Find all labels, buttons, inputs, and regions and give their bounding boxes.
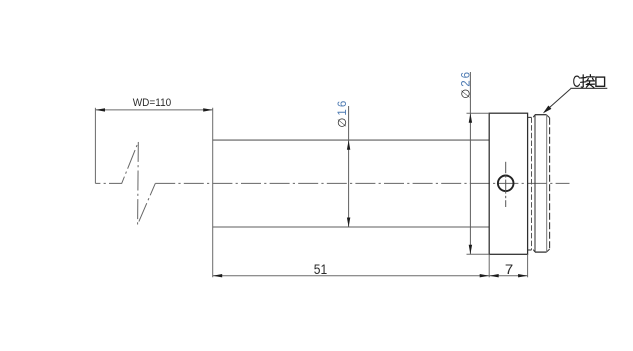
ring A bottom edge <box>528 249 532 251</box>
arrow WD left <box>96 108 106 111</box>
label phi16 (rotated) <box>337 99 349 128</box>
C-mount cylinder top edge <box>535 114 547 116</box>
arrow 7 right <box>518 274 528 277</box>
ring A top edge <box>528 116 532 118</box>
svg-text:∅16: ∅16 <box>337 99 349 128</box>
tube top edge <box>213 139 490 141</box>
chamfer bottom-right <box>546 249 549 252</box>
label KOU (hand-drawn CJK) <box>596 77 605 86</box>
wire block bottom extension for phi26 <box>467 253 490 255</box>
leader line C-mount <box>544 89 571 113</box>
arrow phi16 up <box>347 140 350 150</box>
ring A hidden thread line (dashed) <box>531 117 533 250</box>
chamfer edge circle line <box>546 115 548 252</box>
dimension line WD=110 <box>96 109 213 111</box>
label phi26 (rotated) <box>461 70 473 99</box>
wire 51/7 extension below block right <box>527 254 529 277</box>
wire block top extension for phi26 <box>467 112 490 114</box>
chamfer top-right <box>546 115 549 118</box>
screw hole vertical centerline <box>505 162 507 207</box>
chamfer bottom-left <box>533 250 535 252</box>
leader underline <box>570 87 607 89</box>
C-mount end hidden edge (dashed) <box>549 118 551 249</box>
label JIE (hand-drawn CJK) <box>581 75 595 88</box>
arrow 7 left <box>489 274 499 277</box>
centerline left part (dash-dot with break zigzag) <box>95 142 155 225</box>
arrow phi26 down <box>469 245 472 255</box>
dimension line 7 <box>489 275 527 277</box>
dimension line phi16 <box>348 106 350 227</box>
svg-text:WD=110: WD=110 <box>133 96 172 109</box>
wire tube-left extension line (shared edge) <box>212 108 214 277</box>
svg-text:∅26: ∅26 <box>461 70 473 99</box>
block (flange) outline <box>489 113 527 254</box>
arrow leader <box>543 106 552 114</box>
arrow 51 right <box>480 274 490 277</box>
C-mount cylinder bottom edge <box>535 251 547 253</box>
arrow 51 left <box>213 274 223 277</box>
arrow WD right <box>203 108 213 111</box>
arrow phi16 down <box>347 218 350 228</box>
screw hole circle on block <box>498 176 514 192</box>
tube bottom edge <box>213 226 490 228</box>
centerline right part (dash-dot axis) <box>155 182 569 184</box>
dimension line phi26 <box>469 72 471 254</box>
dimension line 51 <box>213 275 490 277</box>
wire WD extension line left <box>94 108 96 184</box>
svg-text:7: 7 <box>505 262 513 277</box>
wire 51/7 extension below block left <box>488 254 490 277</box>
svg-text:51: 51 <box>314 261 327 277</box>
chamfer top-left <box>533 115 535 117</box>
svg-text:C: C <box>573 72 581 91</box>
arrow phi26 up <box>469 113 472 123</box>
thread start edge line <box>534 115 536 252</box>
